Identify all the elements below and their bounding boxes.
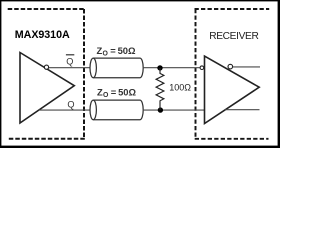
svg-text:=: = (110, 45, 116, 56)
label Z0 = 50ohm (bottom) (97, 86, 137, 99)
svg-text:50Ω: 50Ω (118, 86, 136, 97)
svg-text:Q: Q (66, 56, 73, 66)
wire: bottom coax to receiver (143, 109, 205, 111)
wire: top coax to receiver (143, 67, 200, 69)
label Qbar (66, 54, 74, 66)
label Z0 = 50ohm (top) (97, 45, 137, 58)
svg-text:O: O (103, 51, 109, 58)
svg-text:100Ω: 100Ω (169, 82, 191, 92)
svg-text:RECEIVER: RECEIVER (209, 31, 258, 42)
wire: receiver top output (233, 66, 260, 68)
wire: receiver bottom output (225, 109, 259, 111)
receiver output bubble (on top edge) (228, 64, 233, 69)
coax transmission line T1 (top, Z0=50ohm) (90, 58, 143, 78)
coax transmission line T2 (bottom, Z0=50ohm) (90, 100, 143, 120)
receiver input bubble (top input) (200, 66, 204, 70)
node junction dot (top) (157, 65, 162, 70)
svg-text:50Ω: 50Ω (118, 45, 136, 56)
driver U1 triangle (20, 53, 74, 124)
svg-text:MAX9310A: MAX9310A (15, 29, 70, 41)
RECEIVER dashed box (open on right) (195, 9, 270, 139)
svg-text:O: O (103, 92, 109, 99)
driver inversion bubble (Qbar output) (44, 65, 48, 69)
figure outer frame (0, 0, 280, 148)
MAX9310A dashed box (open on left) (8, 9, 85, 139)
svg-text:Q: Q (67, 100, 74, 110)
resistor R1 100ohm (zigzag) (156, 68, 164, 110)
wire Q: driver edge to bottom coax (39, 109, 91, 111)
wire Qbar: bubble to top coax (49, 67, 91, 69)
svg-text:=: = (111, 86, 117, 97)
receiver U2 triangle (205, 56, 260, 123)
node junction dot (bottom) (158, 107, 163, 112)
